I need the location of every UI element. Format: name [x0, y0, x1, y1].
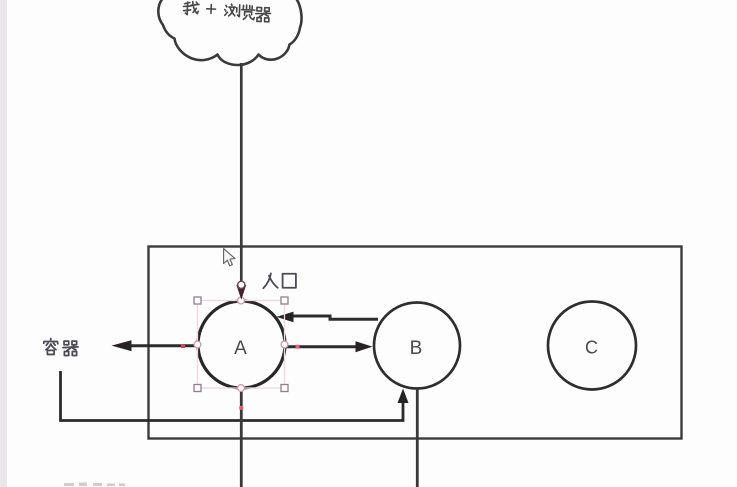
label 入口 [263, 273, 296, 288]
svg-text:C: C [585, 338, 598, 358]
arrow B to A [293, 316, 378, 319]
selection corner handles [194, 297, 288, 392]
wire A bottom going down off-screen [240, 389, 243, 487]
glyph 浏 [225, 4, 240, 17]
glyph 口 [283, 274, 296, 288]
selection box around A [198, 301, 285, 389]
wire endpoint handle on cloud wire [238, 281, 245, 288]
svg-text:B: B [410, 338, 423, 359]
glyph 览 [241, 5, 255, 20]
glyph 器 [255, 7, 270, 22]
plus sign [207, 4, 216, 13]
selection midpoint handles [194, 297, 288, 391]
glyph 入 [263, 273, 277, 288]
faint cut-off text at bottom [64, 483, 125, 487]
circle C [548, 302, 636, 390]
cloud (browser) [158, 0, 301, 65]
red endpoint dot right [296, 345, 300, 349]
label 容器 [44, 339, 78, 356]
arrow A to B [286, 345, 356, 348]
arrow A to left (容器) [130, 344, 197, 347]
container rectangle [149, 247, 682, 439]
glyph 容 [44, 339, 58, 355]
red endpoint dot left [181, 344, 185, 348]
red endpoint dot bottom [239, 406, 243, 410]
wire cloud to A [240, 63, 243, 284]
glyph 我 [183, 1, 199, 15]
arrowhead into A top [236, 285, 246, 300]
left gray strip [0, 0, 7, 487]
wire B bottom going down off-screen [416, 389, 419, 487]
glyph 器 (容器) [63, 341, 78, 355]
circle B [374, 303, 460, 389]
mouse cursor [224, 249, 235, 266]
svg-text:A: A [234, 338, 247, 359]
wire 容器 label down-right to B (arrow up into B) [61, 371, 404, 421]
circle A [198, 301, 285, 388]
cloud label: 我 + 浏览器 [183, 1, 271, 22]
